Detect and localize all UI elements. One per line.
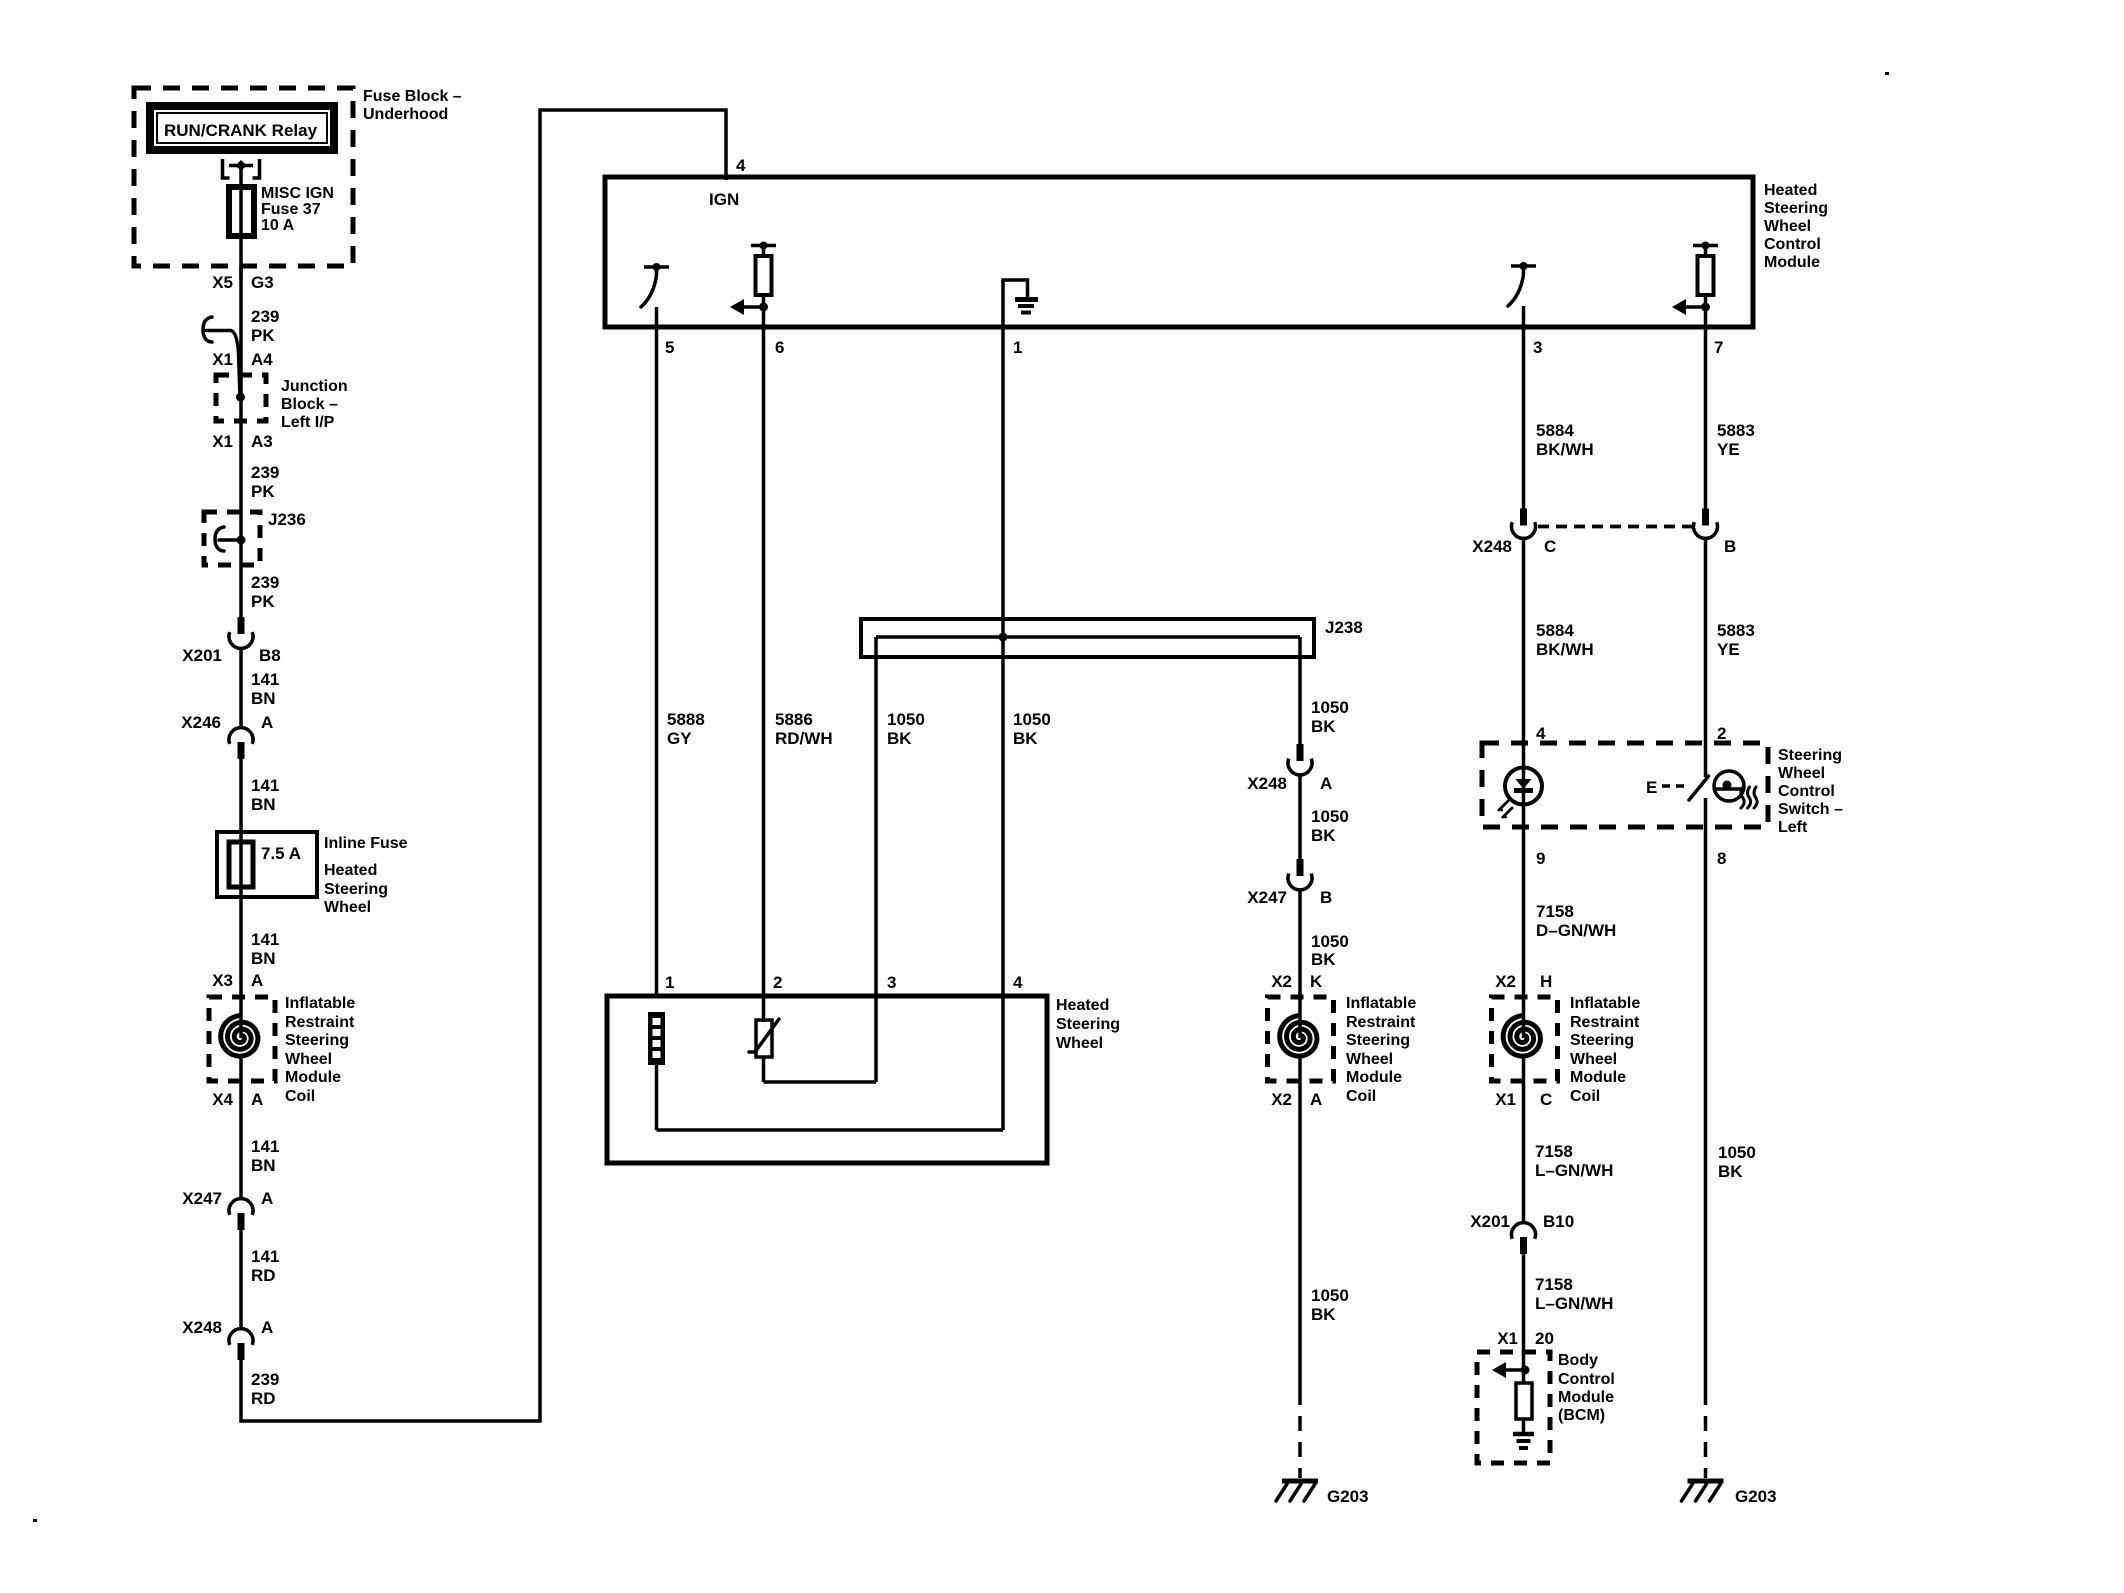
switch pin 2 [1717,724,1726,743]
svg-text:1: 1 [665,973,674,992]
svg-text:Underhood: Underhood [363,106,448,123]
svg-text:X1: X1 [1497,1329,1518,1348]
svg-text:BK: BK [1718,1162,1743,1181]
svg-text:C: C [1544,537,1556,556]
thermistor [749,1019,779,1082]
svg-text:Inflatable: Inflatable [1570,995,1640,1012]
wire 1050 BK to ground [1300,1286,1349,1478]
svg-text:Left I/P: Left I/P [281,414,335,431]
svg-text:X246: X246 [181,713,221,732]
svg-text:B: B [1724,537,1736,556]
svg-text:Module: Module [1570,1069,1626,1086]
svg-text:9: 9 [1536,849,1545,868]
fuse block underhood box [134,88,353,266]
svg-text:BK: BK [1311,717,1336,736]
svg-text:Block –: Block – [281,396,338,413]
wire 141 BN [251,930,279,968]
splice J236 [204,510,306,565]
module switch pin 3 [1508,262,1542,357]
svg-text:Steering: Steering [1764,200,1828,217]
svg-text:RD/WH: RD/WH [775,729,833,748]
svg-text:X247: X247 [1247,888,1287,907]
connector X2 pin H [1495,972,1552,991]
switch pin 4 [1536,724,1546,743]
svg-text:239: 239 [251,1370,279,1389]
wire heater to pin4 rail [657,1128,1004,1132]
stray mark bottom left [33,1519,37,1522]
svg-text:Switch –: Switch – [1778,801,1843,818]
connector X248 pin A (mid) [1247,744,1332,860]
connector X247 pin A [182,1189,273,1329]
svg-text:7: 7 [1714,338,1723,357]
svg-text:BK: BK [887,729,912,748]
wire 239 PK [251,463,279,501]
svg-text:D–GN/WH: D–GN/WH [1536,921,1616,940]
svg-text:A: A [261,713,273,732]
ground G203 (right) [1682,1481,1777,1506]
svg-text:Junction: Junction [281,378,348,395]
svg-text:X1: X1 [1495,1090,1516,1109]
svg-text:Inline Fuse: Inline Fuse [324,835,408,852]
svg-text:Fuse Block –: Fuse Block – [363,88,462,105]
svg-text:BK: BK [1013,729,1038,748]
connector X1 pin C [1495,1090,1552,1109]
svg-text:X2: X2 [1271,972,1292,991]
svg-text:BK: BK [1311,950,1336,969]
stray mark top right [1885,72,1889,75]
svg-text:BN: BN [251,949,276,968]
svg-text:6: 6 [775,338,784,357]
wire 1050 BK J238 to heated wheel pin3 [876,637,925,1082]
svg-text:B8: B8 [259,646,281,665]
splice pack J238 [861,618,1363,657]
svg-text:RUN/CRANK Relay: RUN/CRANK Relay [164,121,318,140]
svg-text:141: 141 [251,1247,279,1266]
svg-text:Coil: Coil [285,1088,315,1105]
svg-text:X2: X2 [1495,972,1516,991]
connector X1 pin 20 [1497,1329,1554,1348]
svg-text:BK: BK [1311,826,1336,845]
svg-text:G3: G3 [251,273,274,292]
wire 1050 BK [1311,932,1349,969]
wire run to module pin 4 [241,110,746,1421]
svg-text:Control: Control [1764,236,1821,253]
svg-text:Module: Module [1764,254,1820,271]
coil inflatable restraint steering wheel module (left) [209,995,355,1199]
svg-text:H: H [1540,972,1552,991]
connector X2 pin K [1271,972,1323,991]
connector X246 pin A [181,700,273,832]
svg-text:X248: X248 [182,1318,222,1337]
connector X201 pin B8 [182,617,280,700]
svg-text:X201: X201 [1470,1212,1510,1231]
wire relay to fuse [239,165,243,190]
svg-text:Wheel: Wheel [1778,765,1825,782]
connector X248 pin B [1538,509,1736,744]
connector X201 pin B10 [1470,1212,1574,1352]
wire 5886 RD/WH pin6 to heated wheel pin2 [764,327,833,1022]
svg-text:3: 3 [887,973,896,992]
svg-text:Heated: Heated [1764,182,1817,199]
svg-text:B: B [1320,888,1332,907]
svg-text:10 A: 10 A [261,217,295,234]
svg-text:X4: X4 [212,1090,233,1109]
svg-text:Heated: Heated [324,862,377,879]
svg-text:Restraint: Restraint [285,1014,355,1031]
svg-text:141: 141 [251,776,279,795]
svg-text:1050: 1050 [1311,698,1349,717]
svg-text:G203: G203 [1327,1487,1369,1506]
wire 5883 YE [1717,621,1755,659]
svg-text:Steering: Steering [1570,1032,1634,1049]
svg-text:Wheel: Wheel [1764,218,1811,235]
svg-text:C: C [1540,1090,1552,1109]
svg-text:7158: 7158 [1535,1142,1573,1161]
svg-text:E: E [1646,778,1657,797]
wire 1050 BK right to ground [1706,827,1756,1478]
indicator LED [1497,743,1542,1038]
svg-text:Module: Module [1346,1069,1402,1086]
wire 141 BN [251,1137,279,1175]
wire 5884 BK/WH module pin3 down [1524,327,1594,509]
svg-text:PK: PK [251,326,275,345]
wire 1050 BK [1311,807,1349,845]
connector X248 pin A [182,1318,273,1360]
svg-text:3: 3 [1533,338,1542,357]
heated switch [1646,743,1757,827]
svg-text:BN: BN [251,1156,276,1175]
svg-text:BK: BK [1311,1305,1336,1324]
svg-text:MISC IGN: MISC IGN [261,185,334,202]
svg-text:J236: J236 [268,510,306,529]
svg-text:A3: A3 [251,432,273,451]
svg-text:Body: Body [1558,1352,1598,1369]
connector X247 pin B [1247,859,1332,1038]
svg-text:1050: 1050 [1013,710,1051,729]
inline fuse 7.5A heated steering wheel [217,832,408,1038]
svg-text:1050: 1050 [1311,807,1349,826]
svg-text:A4: A4 [251,350,273,369]
svg-text:L–GN/WH: L–GN/WH [1535,1294,1613,1313]
svg-text:Inflatable: Inflatable [285,995,355,1012]
svg-text:Coil: Coil [1570,1088,1600,1105]
svg-text:20: 20 [1535,1329,1554,1348]
svg-text:239: 239 [251,307,279,326]
svg-text:Steering: Steering [1346,1032,1410,1049]
svg-text:Control: Control [1778,783,1835,800]
svg-text:Restraint: Restraint [1346,1014,1416,1031]
svg-text:1: 1 [1013,338,1022,357]
connector X2 pin A [1271,1090,1322,1109]
svg-text:Module: Module [1558,1389,1614,1406]
wire 239 PK [251,573,279,611]
svg-text:(BCM): (BCM) [1558,1407,1605,1424]
svg-text:7158: 7158 [1536,902,1574,921]
svg-text:2: 2 [1717,724,1726,743]
ground G203 (mid) [1276,1481,1369,1506]
wire 7158 D-GN/WH [1536,902,1616,940]
connector X1 pin A4 pass-through [203,317,273,397]
svg-text:1050: 1050 [1311,932,1349,951]
fuse F37 MISC IGN 10A [229,185,334,280]
svg-text:BN: BN [251,689,276,708]
svg-text:A: A [1310,1090,1322,1109]
svg-text:J238: J238 [1325,618,1363,637]
svg-text:Coil: Coil [1346,1088,1376,1105]
svg-text:7158: 7158 [1535,1275,1573,1294]
svg-text:X248: X248 [1247,774,1287,793]
svg-text:5884: 5884 [1536,621,1574,640]
svg-text:1050: 1050 [1718,1143,1756,1162]
svg-text:4: 4 [736,156,746,175]
svg-text:Control: Control [1558,1371,1615,1388]
junction block left I/P [216,375,348,431]
svg-text:4: 4 [1013,973,1023,992]
wire 5888 GY pin5 to heated wheel pin1 [657,327,705,998]
connector X5 pin G3 [212,273,273,292]
svg-text:5884: 5884 [1536,421,1574,440]
svg-text:5: 5 [665,338,674,357]
svg-text:141: 141 [251,670,279,689]
wire 141 RD [251,1247,279,1285]
svg-text:G203: G203 [1735,1487,1777,1506]
svg-text:X247: X247 [182,1189,222,1208]
connector X1 pin A3 [212,432,273,451]
wire 7158 L-GN/WH [1535,1275,1613,1313]
svg-text:X3: X3 [212,971,233,990]
svg-text:Wheel: Wheel [1570,1051,1617,1068]
svg-text:5888: 5888 [667,710,705,729]
connector X4 pin A [212,1090,263,1109]
svg-text:Restraint: Restraint [1570,1014,1640,1031]
svg-text:BK/WH: BK/WH [1536,440,1594,459]
svg-text:K: K [1310,972,1323,991]
svg-text:A: A [251,971,263,990]
svg-text:Steering: Steering [285,1032,349,1049]
svg-text:Inflatable: Inflatable [1346,995,1416,1012]
svg-text:RD: RD [251,1266,276,1285]
heater element [648,1012,665,1130]
module resistor pin 7 [1672,242,1723,358]
svg-text:X248: X248 [1472,537,1512,556]
svg-text:Steering: Steering [1056,1016,1120,1033]
svg-text:X1: X1 [212,350,233,369]
body control module BCM [1477,1352,1615,1463]
wire 1050 BK J238 branch [1300,637,1349,745]
svg-text:RD: RD [251,1389,276,1408]
svg-text:X2: X2 [1271,1090,1292,1109]
svg-text:A: A [261,1189,273,1208]
svg-text:L–GN/WH: L–GN/WH [1535,1161,1613,1180]
relay output terminal [223,159,260,178]
svg-text:YE: YE [1717,640,1740,659]
module resistor pin 6 [730,242,784,358]
svg-text:X1: X1 [212,432,233,451]
svg-text:A: A [1320,774,1332,793]
svg-text:8: 8 [1717,849,1726,868]
wire 1050 BK pin1 to heated wheel pin4 [1003,327,1051,1130]
svg-text:Steering: Steering [324,881,388,898]
svg-text:YE: YE [1717,440,1740,459]
svg-text:5883: 5883 [1717,421,1755,440]
wire 5883 YE module pin7 down [1706,327,1755,509]
module switch pin 5 [641,263,674,357]
steering wheel control switch box [1482,743,1843,836]
svg-text:Module: Module [285,1069,341,1086]
svg-text:BK/WH: BK/WH [1536,640,1594,659]
switch pin 9 [1536,849,1545,868]
svg-text:Wheel: Wheel [285,1051,332,1068]
svg-text:7.5 A: 7.5 A [261,844,301,863]
coil inflatable restraint steering wheel module (mid) [1268,995,1417,1390]
wire thermistor to pin3 rail [764,1080,877,1084]
svg-text:Heated: Heated [1056,997,1109,1014]
svg-text:B10: B10 [1543,1212,1574,1231]
svg-text:5886: 5886 [775,710,813,729]
module heated steering wheel control [605,177,1828,327]
svg-text:Steering: Steering [1778,747,1842,764]
svg-text:141: 141 [251,1137,279,1156]
svg-text:2: 2 [773,973,782,992]
svg-text:GY: GY [667,729,692,748]
svg-text:Wheel: Wheel [1056,1035,1103,1052]
svg-text:A: A [251,1090,263,1109]
svg-text:239: 239 [251,463,279,482]
svg-text:IGN: IGN [709,190,739,209]
connector X248 pin C [1472,509,1556,744]
wire 7158 L-GN/WH [1535,1142,1613,1180]
svg-text:X201: X201 [182,646,222,665]
switch pin 8 [1717,849,1726,868]
wire 239 RD [251,1370,279,1408]
svg-text:Left: Left [1778,819,1808,836]
wire 239 PK [241,266,279,618]
svg-text:Wheel: Wheel [1346,1051,1393,1068]
module ground pin 1 [1003,280,1038,357]
wire 5884 BK/WH [1536,621,1594,659]
svg-text:5883: 5883 [1717,621,1755,640]
heated steering wheel unit [607,973,1120,1163]
relay RUN/CRANK [150,106,334,150]
svg-text:1050: 1050 [1311,1286,1349,1305]
svg-text:4: 4 [1536,724,1546,743]
svg-text:141: 141 [251,930,279,949]
svg-text:239: 239 [251,573,279,592]
label fuse block underhood [363,88,462,123]
svg-text:Fuse 37: Fuse 37 [261,201,321,218]
wire 141 BN [251,670,279,708]
svg-text:PK: PK [251,482,275,501]
svg-text:BN: BN [251,795,276,814]
svg-text:PK: PK [251,592,275,611]
wire 141 BN [251,776,279,814]
svg-text:Wheel: Wheel [324,899,371,916]
svg-text:1050: 1050 [887,710,925,729]
coil inflatable restraint steering wheel module (right) [1492,995,1641,1223]
svg-text:X5: X5 [212,273,233,292]
svg-text:A: A [261,1318,273,1337]
connector X3 pin A [212,971,263,990]
